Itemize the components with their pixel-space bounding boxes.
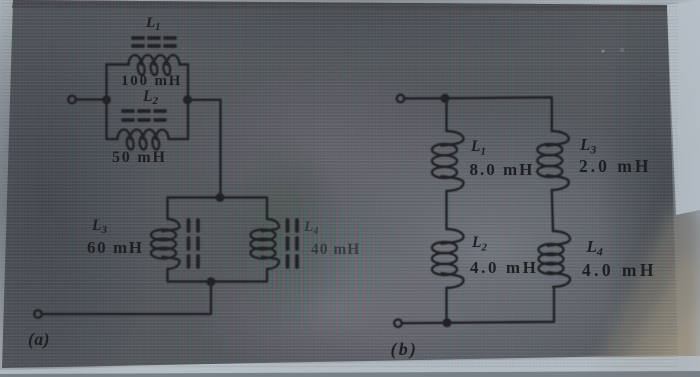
wire top of L3/L4 box xyxy=(168,198,268,220)
warm wedge bottom-right xyxy=(588,205,700,377)
value 4.0 mH of L4 xyxy=(582,260,657,281)
value 60 mH of L3 xyxy=(87,238,144,258)
iron core dashes of L3 xyxy=(189,220,199,267)
node C xyxy=(216,193,225,202)
label L4 (b) xyxy=(587,237,603,260)
terminal T4 xyxy=(394,319,402,327)
inductor L1 coil (b) xyxy=(432,131,464,191)
top dark bar xyxy=(12,0,667,11)
inductor L2 coil (b) xyxy=(432,229,464,288)
stronger moire stripes lower-middle xyxy=(210,170,430,370)
value 4.0 mH of L2 xyxy=(470,258,538,278)
value 40 mH of L4, faint xyxy=(311,241,360,259)
node D xyxy=(207,277,216,286)
caption (b) xyxy=(391,339,419,360)
inductor L3 coil (b) xyxy=(537,131,569,190)
wire bottom rail to right branch xyxy=(447,287,554,323)
wire top branch left stub xyxy=(107,63,129,65)
node B xyxy=(183,95,192,104)
label L1 (a) xyxy=(146,15,161,33)
wire T3 to node E xyxy=(404,97,445,100)
wire left branch middle stub xyxy=(445,191,447,229)
wire bottom of L3/L4 box xyxy=(168,269,268,282)
wire top branch right stub xyxy=(180,63,189,65)
inductor L3 coil (a) xyxy=(151,219,180,269)
value 50 mH of L2 xyxy=(112,149,167,167)
wire left edge of L1/L2 box xyxy=(105,65,107,140)
wire node B to lower box xyxy=(188,100,221,198)
wire node D to terminal T2 xyxy=(42,282,211,315)
bottom darker line xyxy=(0,371,700,377)
wire T4 to node F xyxy=(402,322,447,325)
node A xyxy=(102,95,111,104)
label L3 (a) xyxy=(92,217,107,236)
wire bottom branch right stub xyxy=(169,138,189,140)
bottom light strip re-assert xyxy=(0,356,700,374)
iron core dashes of L1 xyxy=(133,38,175,46)
dust specks xyxy=(601,49,604,52)
wire left branch lower stub xyxy=(445,288,447,323)
label L4 (a), faint xyxy=(304,219,318,237)
terminal T3 xyxy=(397,95,405,103)
value 8.0 mH of L1 xyxy=(470,160,535,180)
inductor L4 coil (a) xyxy=(251,219,280,269)
value 100 mH of L1 xyxy=(121,73,182,90)
iron core dashes of L4 xyxy=(288,220,298,267)
caption (a) xyxy=(28,329,50,350)
wire right edge of L1/L2 box xyxy=(187,65,189,140)
label L2 (a) xyxy=(143,88,158,107)
light table edge right re-assert xyxy=(667,0,700,215)
inductor L1 coil (a) xyxy=(129,55,180,75)
wire T1 to node A xyxy=(76,98,106,100)
label L3 (b) xyxy=(580,135,596,158)
terminal T1 xyxy=(68,96,76,104)
label L2 (b) xyxy=(472,234,487,254)
terminal T2 xyxy=(34,310,42,318)
inductor L2 coil (a) xyxy=(118,130,169,150)
wire left branch upper stub xyxy=(445,98,447,131)
node F xyxy=(443,318,452,327)
inductor L4 coil (b) xyxy=(539,231,571,287)
node E xyxy=(441,94,450,103)
wire right branch middle stub xyxy=(552,190,553,231)
value 2.0 mH of L3 xyxy=(579,156,651,177)
wire top rail to right branch xyxy=(445,97,552,131)
label L1 (b) xyxy=(471,138,486,158)
wire bottom branch left stub xyxy=(107,138,118,140)
iron core dashes of L2 xyxy=(123,111,165,120)
